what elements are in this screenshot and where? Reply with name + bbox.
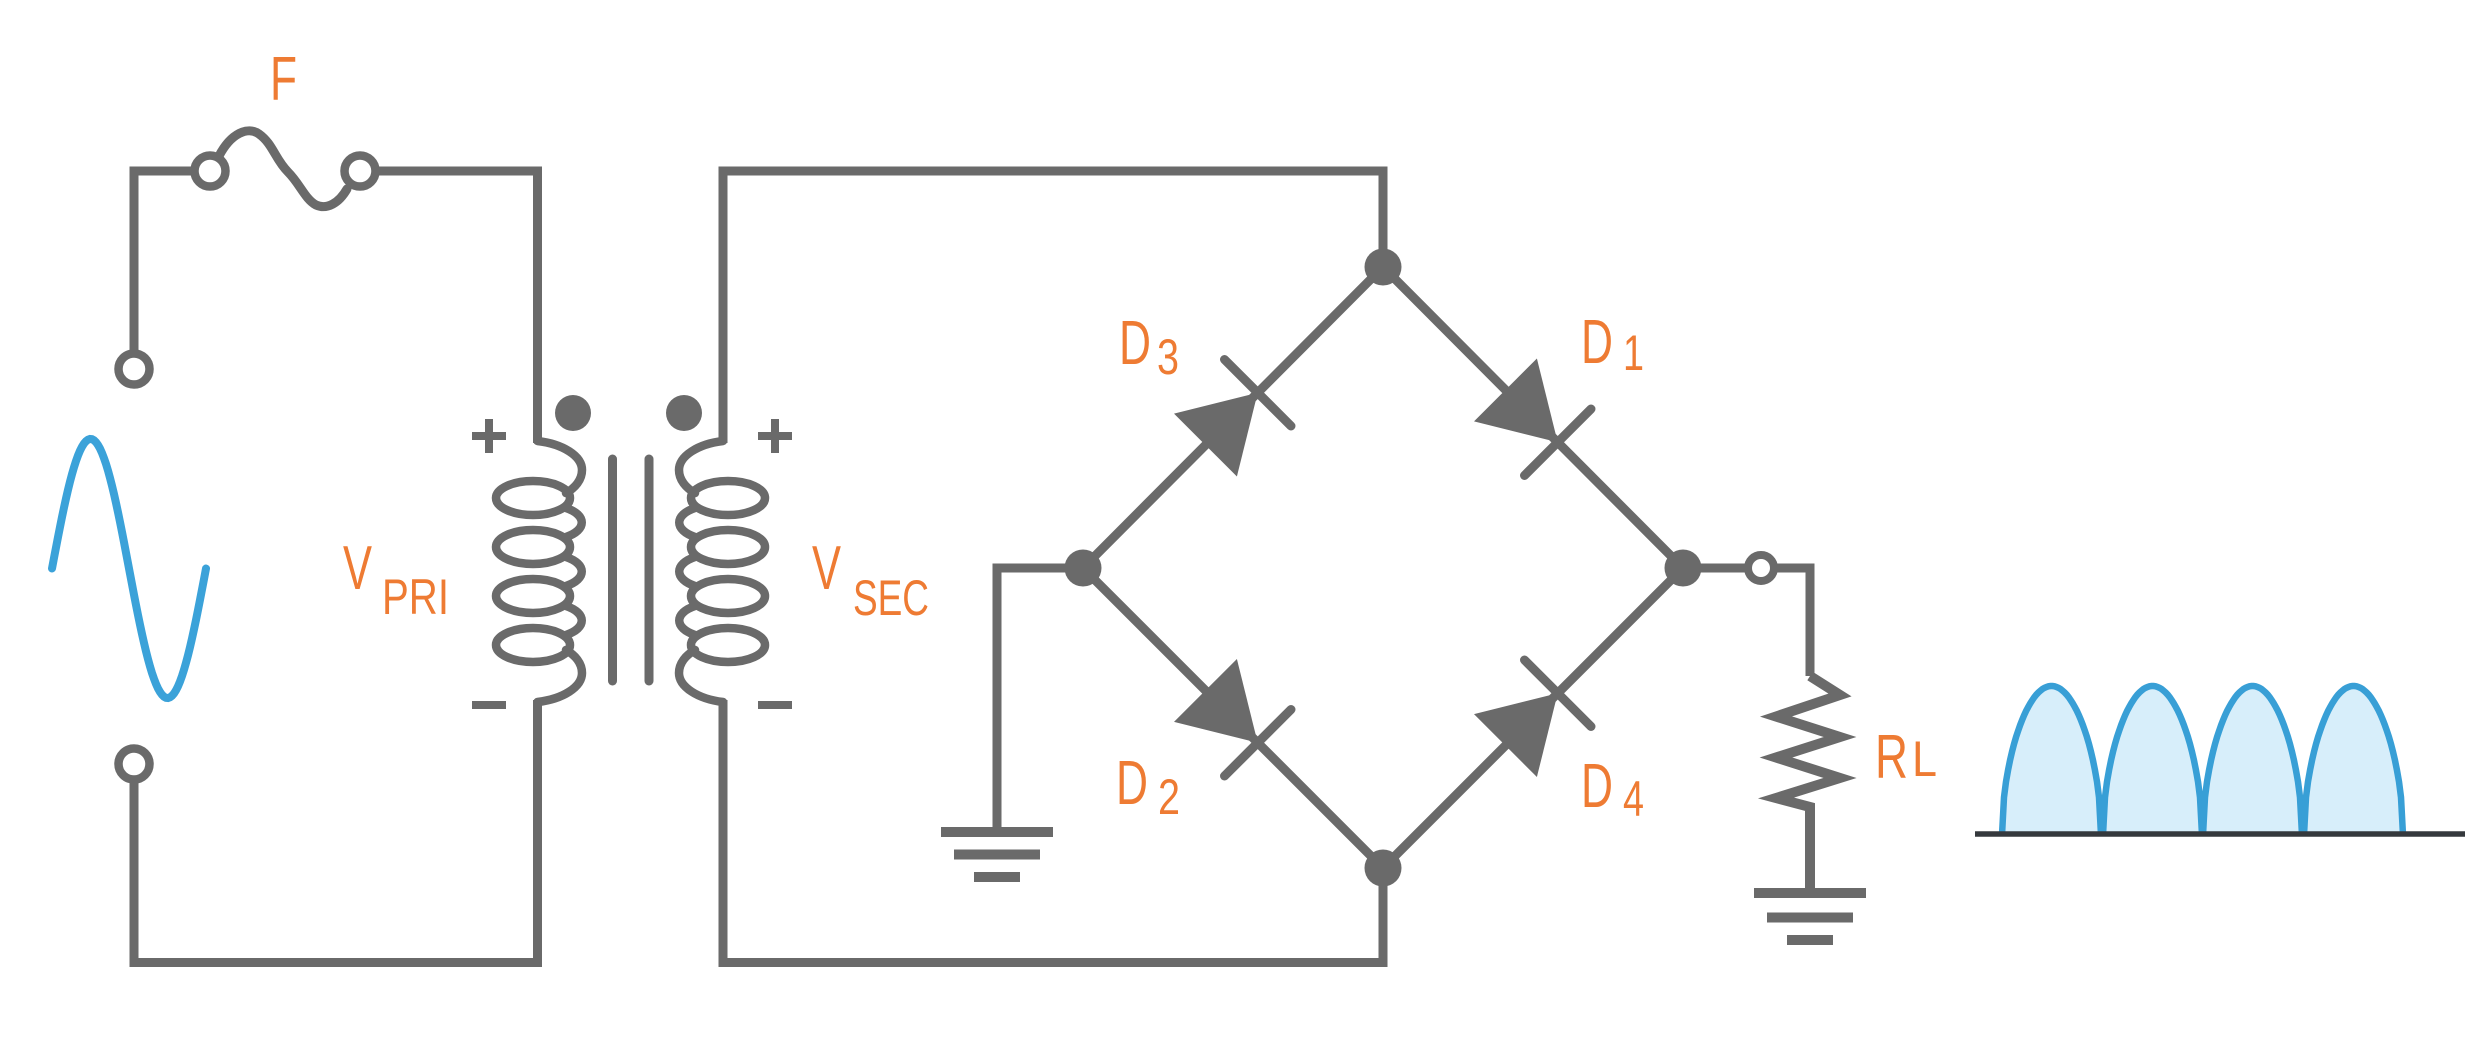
svg-text:V: V bbox=[343, 534, 372, 603]
svg-text:V: V bbox=[812, 534, 841, 603]
svg-text:SEC: SEC bbox=[853, 570, 929, 626]
svg-text:3: 3 bbox=[1157, 329, 1179, 385]
svg-text:L: L bbox=[1912, 731, 1937, 787]
svg-text:D: D bbox=[1116, 749, 1148, 818]
svg-text:4: 4 bbox=[1623, 771, 1644, 827]
svg-text:R: R bbox=[1875, 723, 1908, 792]
svg-text:2: 2 bbox=[1158, 769, 1180, 825]
svg-text:D: D bbox=[1119, 309, 1151, 378]
svg-text:D: D bbox=[1581, 752, 1613, 821]
svg-text:PRI: PRI bbox=[382, 569, 449, 625]
svg-text:D: D bbox=[1581, 308, 1613, 377]
svg-text:1: 1 bbox=[1623, 325, 1644, 381]
svg-text:F: F bbox=[270, 45, 297, 114]
